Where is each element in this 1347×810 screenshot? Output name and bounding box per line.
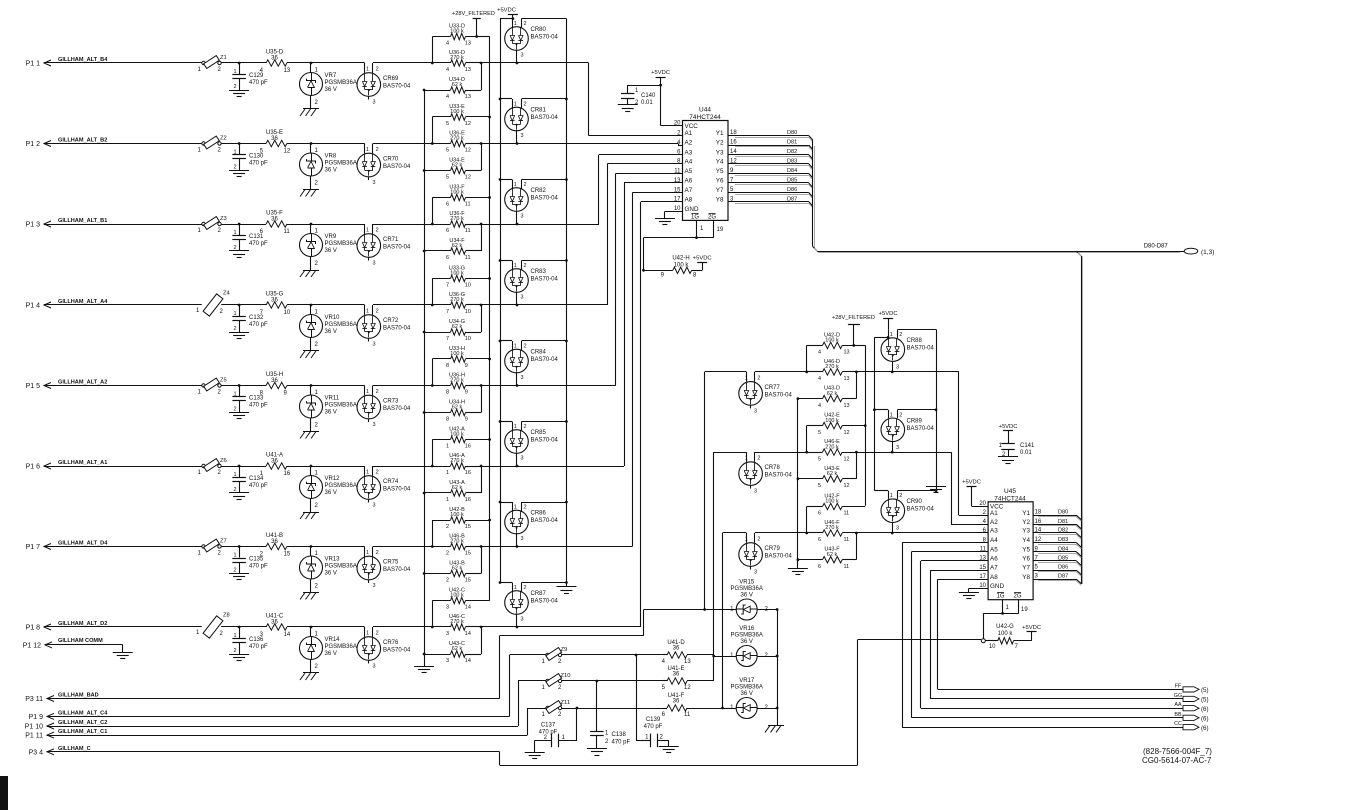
svg-text:3: 3 xyxy=(754,408,757,414)
net FF off-page (5) xyxy=(938,683,1209,694)
svg-text:1: 1 xyxy=(745,375,748,381)
wire xyxy=(510,654,638,657)
svg-text:1: 1 xyxy=(196,308,200,314)
svg-text:1: 1 xyxy=(635,88,639,94)
svg-text:Z1: Z1 xyxy=(220,55,227,61)
transient suppressor Z6 xyxy=(198,458,227,476)
svg-text:6: 6 xyxy=(662,712,666,718)
pin 15 A7 xyxy=(979,565,998,572)
pin Y4 net D83 xyxy=(716,158,813,170)
pin 4 A2 xyxy=(677,140,693,147)
svg-text:1: 1 xyxy=(542,685,546,691)
svg-text:GILLHAM_ALT_B1: GILLHAM_ALT_B1 xyxy=(58,218,107,224)
net GILLHAM_ALT_C1 xyxy=(58,729,107,735)
svg-text:1: 1 xyxy=(233,230,236,236)
svg-text:2: 2 xyxy=(233,648,236,654)
wire xyxy=(921,561,989,709)
svg-text:1G: 1G xyxy=(691,214,699,220)
ground xyxy=(926,487,946,493)
net GILLHAM_ALT_A4 xyxy=(58,299,108,305)
svg-text:3: 3 xyxy=(446,605,449,611)
diode CR73 BAS70-04 xyxy=(357,386,411,429)
svg-text:VR16: VR16 xyxy=(739,626,755,632)
svg-text:36: 36 xyxy=(271,459,278,465)
power +5VDC xyxy=(879,311,898,329)
svg-text:PGSMB36A: PGSMB36A xyxy=(325,403,357,409)
svg-text:GND: GND xyxy=(685,206,699,213)
svg-text:1: 1 xyxy=(233,472,236,478)
svg-text:6: 6 xyxy=(818,564,821,570)
node xyxy=(310,223,313,226)
net GG off-page (5) xyxy=(930,693,1208,704)
svg-text:1: 1 xyxy=(198,390,202,396)
svg-text:AA: AA xyxy=(1174,702,1182,708)
svg-text:16: 16 xyxy=(465,497,471,503)
wire xyxy=(757,655,778,658)
svg-text:270 k: 270 k xyxy=(450,216,464,222)
pin 17 A8 xyxy=(979,574,998,581)
resistor U43-F 62k xyxy=(797,532,858,570)
svg-text:2: 2 xyxy=(218,470,222,476)
wire GILLHAM_C xyxy=(55,640,981,766)
rail +5V xyxy=(874,337,876,490)
svg-text:P1 9: P1 9 xyxy=(29,714,44,721)
svg-text:1: 1 xyxy=(446,497,449,503)
svg-text:4: 4 xyxy=(662,659,666,665)
wire xyxy=(52,304,202,306)
svg-text:Y6: Y6 xyxy=(716,178,724,185)
wire xyxy=(518,680,598,683)
connector pin P3 4 xyxy=(29,749,56,757)
svg-text:3: 3 xyxy=(373,342,376,348)
diode CR87 BAS70-04 xyxy=(505,583,559,629)
svg-text:(828-7566-004F_7): (828-7566-004F_7) xyxy=(1143,747,1212,756)
svg-text:11: 11 xyxy=(684,712,691,718)
wire xyxy=(499,98,512,101)
svg-text:3: 3 xyxy=(521,536,524,542)
svg-text:62 k: 62 k xyxy=(452,243,463,249)
wire xyxy=(499,259,512,262)
svg-text:270 k: 270 k xyxy=(450,458,464,464)
wire xyxy=(311,224,365,234)
svg-text:62 k: 62 k xyxy=(452,82,463,88)
svg-text:D80: D80 xyxy=(1058,510,1068,516)
svg-text:1: 1 xyxy=(315,229,319,235)
resistor U42-B 100k xyxy=(432,507,491,530)
svg-text:3: 3 xyxy=(373,664,376,670)
svg-text:1: 1 xyxy=(233,392,236,398)
tvs diode VR10 PGSMB36A xyxy=(300,305,357,351)
wire xyxy=(432,198,434,225)
transient suppressor Z1 xyxy=(198,55,227,73)
svg-text:100 k: 100 k xyxy=(450,29,464,35)
svg-text:GILLHAM_ALT_C2: GILLHAM_ALT_C2 xyxy=(58,720,107,726)
svg-text:270 k: 270 k xyxy=(450,136,464,142)
svg-text:2: 2 xyxy=(524,424,527,430)
wire xyxy=(755,532,807,534)
wire xyxy=(757,708,777,710)
svg-text:BAS70-04: BAS70-04 xyxy=(383,326,411,332)
svg-text:74HCT244: 74HCT244 xyxy=(689,114,721,121)
wire xyxy=(705,609,737,611)
svg-text:2: 2 xyxy=(757,375,760,381)
pin 13 A6 xyxy=(674,178,693,185)
svg-text:U42-H: U42-H xyxy=(672,256,689,262)
svg-text:BAS70-04: BAS70-04 xyxy=(531,115,559,121)
resistor U41-D 36 xyxy=(662,640,714,665)
svg-text:1: 1 xyxy=(745,537,748,543)
svg-text:470 pF: 470 pF xyxy=(249,322,268,328)
svg-text:36 V: 36 V xyxy=(325,248,337,254)
svg-text:2: 2 xyxy=(899,493,902,499)
wire xyxy=(805,426,808,454)
transient suppressor Z8 xyxy=(196,613,230,639)
svg-text:BAS70-04: BAS70-04 xyxy=(383,648,411,654)
wire xyxy=(723,708,737,710)
svg-text:20: 20 xyxy=(979,501,986,507)
svg-text:2: 2 xyxy=(218,228,222,234)
wire xyxy=(522,501,568,504)
svg-text:Z5: Z5 xyxy=(220,378,227,384)
svg-text:A7: A7 xyxy=(990,565,998,572)
pin 15 A7 xyxy=(674,187,693,194)
junction xyxy=(981,639,985,643)
svg-text:Z4: Z4 xyxy=(223,291,231,297)
svg-text:13: 13 xyxy=(844,350,850,356)
transient suppressor Z4 xyxy=(196,291,231,317)
wire GILLHAM_ALT_C4 xyxy=(55,655,510,717)
svg-text:2: 2 xyxy=(899,332,902,338)
svg-text:10: 10 xyxy=(284,310,291,316)
chassis ground xyxy=(300,190,319,197)
ground xyxy=(525,753,545,759)
wire xyxy=(52,224,202,226)
svg-text:1: 1 xyxy=(514,344,517,350)
pin 4 A2 xyxy=(983,519,999,526)
resistor U34-F 62k xyxy=(423,224,482,261)
chassis ground xyxy=(765,725,784,732)
svg-text:CR75: CR75 xyxy=(383,560,399,566)
svg-text:BAS70-04: BAS70-04 xyxy=(531,35,559,41)
svg-text:3: 3 xyxy=(754,570,757,576)
diode CR71 BAS70-04 xyxy=(357,224,411,267)
wire xyxy=(373,223,434,226)
wire GND pin xyxy=(969,588,989,592)
svg-text:6: 6 xyxy=(446,255,449,261)
svg-text:A8: A8 xyxy=(685,196,693,203)
svg-text:62 k: 62 k xyxy=(452,324,463,330)
svg-text:GILLHAM COMM: GILLHAM COMM xyxy=(58,638,103,644)
svg-text:Y8: Y8 xyxy=(716,196,724,203)
svg-text:10: 10 xyxy=(465,309,471,315)
svg-text:1: 1 xyxy=(198,148,202,154)
svg-text:VR8: VR8 xyxy=(325,154,337,160)
power +5VDC xyxy=(1022,625,1041,641)
svg-text:1: 1 xyxy=(514,102,517,108)
wire xyxy=(522,178,568,181)
svg-text:BAS70-04: BAS70-04 xyxy=(531,196,559,202)
svg-text:13: 13 xyxy=(284,68,291,74)
svg-text:3: 3 xyxy=(521,53,524,59)
svg-text:7: 7 xyxy=(446,309,449,315)
svg-text:BAS70-04: BAS70-04 xyxy=(531,277,559,283)
svg-text:11: 11 xyxy=(844,537,850,543)
svg-text:13: 13 xyxy=(465,67,471,73)
svg-text:100 k: 100 k xyxy=(674,263,690,269)
svg-text:BAS70-04: BAS70-04 xyxy=(383,406,411,412)
wire xyxy=(522,340,568,343)
svg-text:2: 2 xyxy=(218,390,222,396)
svg-text:7: 7 xyxy=(446,336,449,342)
svg-text:13: 13 xyxy=(465,41,471,47)
resistor U43-C 62k xyxy=(423,627,482,664)
wire xyxy=(873,408,888,411)
wire xyxy=(500,610,705,636)
chassis ground xyxy=(300,432,319,439)
svg-text:15: 15 xyxy=(465,524,471,530)
resistor U35-H 36 xyxy=(239,372,311,397)
pin 11 A5 xyxy=(980,546,998,553)
svg-text:BAS70-04: BAS70-04 xyxy=(907,346,935,352)
wire xyxy=(522,19,567,588)
svg-text:270 k: 270 k xyxy=(825,525,839,531)
wire xyxy=(892,372,988,516)
svg-text:270 k: 270 k xyxy=(825,444,839,450)
svg-text:1: 1 xyxy=(366,389,369,395)
svg-text:A2: A2 xyxy=(685,140,693,147)
svg-text:15: 15 xyxy=(674,187,681,193)
svg-text:2: 2 xyxy=(376,309,379,315)
tvs diode VR13 PGSMB36A xyxy=(300,547,357,593)
resistor U42-E 100k xyxy=(807,413,866,436)
net GILLHAM COMM xyxy=(58,638,103,644)
svg-text:1: 1 xyxy=(542,659,546,665)
resistor U41-F 36 xyxy=(662,693,723,718)
tvs diode VR16 PGSMB36A xyxy=(730,626,768,667)
svg-text:1: 1 xyxy=(233,311,236,317)
svg-text:7: 7 xyxy=(1015,644,1019,650)
svg-text:36 V: 36 V xyxy=(325,168,337,174)
svg-text:3: 3 xyxy=(521,456,524,462)
svg-text:2: 2 xyxy=(524,263,527,269)
wire xyxy=(500,17,514,582)
wire xyxy=(311,386,365,396)
svg-text:CR70: CR70 xyxy=(383,157,399,163)
connector pin P1 4 xyxy=(26,302,53,310)
resistor U46-B 270k xyxy=(432,534,482,557)
svg-text:470 pF: 470 pF xyxy=(249,80,268,86)
resistor U33-H 100k xyxy=(432,346,491,369)
wire xyxy=(53,645,123,653)
net GILLHAM_ALT_B2 xyxy=(58,138,107,144)
svg-text:BAS70-04: BAS70-04 xyxy=(383,487,411,493)
wire GILLHAM_ALT_C1 xyxy=(55,708,528,736)
svg-text:9: 9 xyxy=(465,417,468,423)
svg-text:14: 14 xyxy=(465,605,471,611)
pin Y8 net D87 xyxy=(716,196,813,208)
diode CR77 BAS70-04 xyxy=(739,372,793,415)
svg-text:19: 19 xyxy=(717,227,724,233)
svg-text:BAS70-04: BAS70-04 xyxy=(531,518,559,524)
svg-text:GILLHAM_ALT_D4: GILLHAM_ALT_D4 xyxy=(58,541,108,547)
power +5VDC xyxy=(651,70,670,85)
wire xyxy=(311,305,365,315)
svg-text:1: 1 xyxy=(233,69,236,75)
svg-text:3: 3 xyxy=(373,100,376,106)
svg-text:3: 3 xyxy=(373,180,376,186)
svg-text:CR77: CR77 xyxy=(765,385,781,391)
svg-text:GG: GG xyxy=(1174,693,1182,699)
svg-text:2: 2 xyxy=(315,423,319,429)
connector pin P1 8 xyxy=(26,624,53,632)
svg-text:14: 14 xyxy=(465,658,471,664)
svg-text:A6: A6 xyxy=(685,178,693,185)
svg-text:4: 4 xyxy=(446,94,449,100)
transient suppressor Z7 xyxy=(198,539,227,557)
svg-text:6: 6 xyxy=(446,228,449,234)
svg-text:100 k: 100 k xyxy=(825,338,839,344)
svg-text:1: 1 xyxy=(366,147,369,153)
wire GILLHAM_ALT_C2 xyxy=(55,681,519,727)
resistor U35-E 36 xyxy=(239,130,311,155)
svg-text:Z8: Z8 xyxy=(223,613,230,619)
pin Y6 net D85 xyxy=(1022,555,1081,567)
resistor U42-C 100k xyxy=(432,588,489,611)
svg-text:Z3: Z3 xyxy=(220,216,227,222)
pin 2 A1 xyxy=(983,510,999,517)
svg-text:Y1: Y1 xyxy=(716,130,724,137)
wire xyxy=(311,547,365,557)
tvs diode VR17 PGSMB36A xyxy=(730,678,768,719)
svg-text:Z2: Z2 xyxy=(220,136,227,142)
net GILLHAM_ALT_C2 xyxy=(58,720,107,726)
svg-text:5: 5 xyxy=(446,148,449,154)
svg-text:12: 12 xyxy=(844,430,850,436)
svg-text:GILLHAM_C: GILLHAM_C xyxy=(58,746,91,752)
wire VCC xyxy=(659,84,682,126)
svg-text:BAS70-04: BAS70-04 xyxy=(383,84,411,90)
wire xyxy=(221,545,240,548)
svg-text:2G: 2G xyxy=(1013,594,1021,600)
chassis ground xyxy=(300,270,319,277)
wire xyxy=(499,581,512,584)
svg-text:11: 11 xyxy=(844,511,850,517)
connector pin P1 1 xyxy=(26,60,53,68)
wire xyxy=(221,223,240,226)
diode CR80 BAS70-04 xyxy=(505,19,559,65)
svg-text:36 V: 36 V xyxy=(325,571,337,577)
ground xyxy=(229,655,249,661)
IC U44 74HCT244 box xyxy=(683,107,729,221)
transient suppressor Z9 xyxy=(542,647,568,665)
svg-text:VR11: VR11 xyxy=(325,396,340,402)
bus horizontal net D80-D87 xyxy=(817,244,1184,253)
wire xyxy=(902,543,988,728)
wire xyxy=(373,142,434,145)
svg-text:Y2: Y2 xyxy=(1022,519,1030,526)
svg-text:470 pF: 470 pF xyxy=(644,724,663,730)
svg-text:270 k: 270 k xyxy=(450,55,464,61)
svg-text:100 k: 100 k xyxy=(450,109,464,115)
svg-text:GILLHAM_ALT_A2: GILLHAM_ALT_A2 xyxy=(58,380,107,386)
power +5VDC xyxy=(497,8,518,19)
svg-text:3: 3 xyxy=(521,375,524,381)
svg-text:470 pF: 470 pF xyxy=(249,403,268,409)
svg-text:2: 2 xyxy=(524,102,527,108)
svg-text:11: 11 xyxy=(465,228,471,234)
wire xyxy=(432,601,434,628)
svg-text:CR86: CR86 xyxy=(531,511,547,517)
svg-text:3: 3 xyxy=(373,261,376,267)
wire xyxy=(562,708,664,710)
svg-text:P1 10: P1 10 xyxy=(25,724,43,731)
svg-text:Z9: Z9 xyxy=(561,647,568,653)
svg-text:270 k: 270 k xyxy=(450,539,464,545)
svg-text:2: 2 xyxy=(1002,452,1006,458)
svg-text:270 k: 270 k xyxy=(825,364,839,370)
svg-text:36 V: 36 V xyxy=(325,87,337,93)
svg-text:+5VDC: +5VDC xyxy=(693,255,712,261)
net GILLHAM_ALT_C4 xyxy=(58,710,108,716)
capacitor C131 xyxy=(232,224,268,251)
svg-text:0.01: 0.01 xyxy=(641,100,653,106)
svg-text:2: 2 xyxy=(635,100,639,106)
svg-text:36: 36 xyxy=(673,699,680,705)
svg-text:5: 5 xyxy=(1035,565,1039,571)
svg-text:62 k: 62 k xyxy=(452,485,463,491)
ground xyxy=(229,251,249,258)
ground xyxy=(998,457,1018,464)
svg-text:1G: 1G xyxy=(996,594,1004,600)
svg-text:2: 2 xyxy=(524,21,527,27)
svg-text:2: 2 xyxy=(218,67,222,73)
pin Y7 net D86 xyxy=(1022,565,1081,577)
svg-text:2: 2 xyxy=(233,326,236,332)
svg-text:1: 1 xyxy=(446,444,449,450)
svg-text:2: 2 xyxy=(376,389,379,395)
off-page connector (1,3) xyxy=(1184,248,1214,256)
svg-text:C139: C139 xyxy=(646,717,661,723)
svg-text:3: 3 xyxy=(521,617,524,623)
svg-text:CR85: CR85 xyxy=(531,430,547,436)
svg-text:1: 1 xyxy=(645,735,649,741)
svg-text:BAS70-04: BAS70-04 xyxy=(765,392,793,398)
svg-text:P3 4: P3 4 xyxy=(29,749,44,756)
diode CR90 BAS70-04 xyxy=(881,489,937,534)
wire xyxy=(52,546,202,548)
svg-text:5: 5 xyxy=(818,456,821,462)
diode CR72 BAS70-04 xyxy=(357,305,411,348)
wire xyxy=(499,420,512,423)
wire xyxy=(221,62,240,65)
svg-text:8: 8 xyxy=(693,273,697,279)
svg-text:P3 11: P3 11 xyxy=(25,696,43,703)
svg-text:A1: A1 xyxy=(990,510,998,517)
svg-text:4: 4 xyxy=(818,350,821,356)
svg-text:BAS70-04: BAS70-04 xyxy=(907,426,935,432)
wire xyxy=(522,259,568,262)
wire xyxy=(52,143,202,145)
svg-text:C138: C138 xyxy=(612,732,627,738)
resistor U43-A 62k xyxy=(423,466,482,503)
svg-text:(1,3): (1,3) xyxy=(1201,249,1214,256)
power +5VDC xyxy=(999,424,1018,443)
wire xyxy=(52,385,202,387)
pin Y2 net D81 xyxy=(1022,519,1081,531)
wire xyxy=(311,144,365,154)
svg-text:U42-G: U42-G xyxy=(996,624,1014,630)
wire GND pin xyxy=(665,211,683,218)
